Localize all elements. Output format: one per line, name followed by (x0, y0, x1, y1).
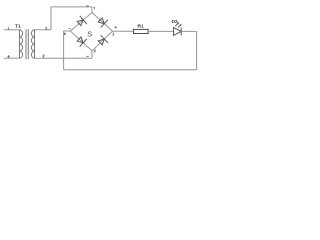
pin label ~ bottom (bridge) (86, 55, 88, 58)
bridge center label S (87, 30, 92, 39)
pin label 1 (T1 primary top) (7, 28, 10, 30)
wire pin4 lead (4, 57, 20, 59)
bridge diamond edge top-left (70, 13, 92, 32)
svg-text:T1: T1 (15, 23, 21, 29)
wire bridge left vertex stub (64, 30, 71, 32)
diode D2 cathode bar (180, 28, 182, 36)
bridge diamond edge bottom-left (70, 31, 92, 51)
diode D2 triangle (174, 28, 182, 36)
core line 2 (27, 29, 29, 59)
pin label 2 bottom (bridge) (94, 50, 96, 52)
svg-text:D2: D2 (172, 19, 178, 25)
diode D2 led arrow 1 (175, 23, 178, 26)
diode D2 led arrow 2 (178, 25, 181, 28)
bridge diamond edge top-right (92, 13, 113, 32)
wire secondary top to bridge top vertex (51, 7, 92, 30)
resistor R1 body (133, 29, 148, 33)
secondary winding arcs (31, 30, 34, 58)
pin number labels (micro-glyph paths) (8, 5, 117, 57)
wire bridge bottom vertex to pin2 wire (91, 51, 93, 59)
svg-text:R1: R1 (138, 23, 144, 29)
bridge diode D-tl cathode bar (80, 16, 87, 24)
pin label 1 top (bridge) (93, 7, 96, 9)
pin label 3 (T1 secondary top) (45, 27, 46, 29)
bridge diode D-br triangle (98, 39, 104, 45)
bridge diode D-tr cathode bar (101, 20, 108, 28)
bridge diamond edge bottom-right (92, 31, 113, 51)
component designator labels (15, 19, 178, 30)
bridge diode D-bl cathode bar (80, 39, 87, 47)
wire minus rail vertical (63, 31, 65, 70)
wire bottom rail (64, 69, 197, 71)
wire pin3 lead (35, 29, 52, 31)
primary winding arcs (20, 30, 23, 58)
pin label ~ top (bridge) (86, 4, 88, 7)
pin label + right (bridge) (115, 26, 117, 28)
wire bridge right vertex to R1 (113, 30, 134, 32)
secondary winding baseline (34, 30, 36, 58)
pin label 4 left (bridge) (64, 33, 66, 35)
background (0, 0, 200, 76)
primary winding baseline (19, 30, 21, 58)
wire D2 to right edge (181, 30, 196, 32)
wire R1 to D2 (148, 30, 173, 32)
wire right edge vertical (196, 31, 198, 70)
bridge diode D-br cathode bar (101, 35, 108, 43)
pin label - left (bridge) (69, 27, 71, 29)
bridge diode D-tr triangle (98, 18, 104, 24)
diode D2 led arrowheads (177, 22, 182, 26)
pin label 4 (T1 primary bottom) (8, 55, 10, 57)
svg-text:S: S (87, 30, 92, 39)
wire pin1 lead (4, 29, 20, 31)
pin label 2 (T1 secondary bottom) (43, 55, 45, 57)
bridge diode D-bl triangle (77, 37, 83, 43)
core line 1 (25, 29, 27, 59)
pin label 3 right (bridge) (113, 33, 114, 35)
wire pin2 lead to bridge bottom (35, 57, 93, 59)
bridge diode D-tl triangle (77, 20, 83, 26)
